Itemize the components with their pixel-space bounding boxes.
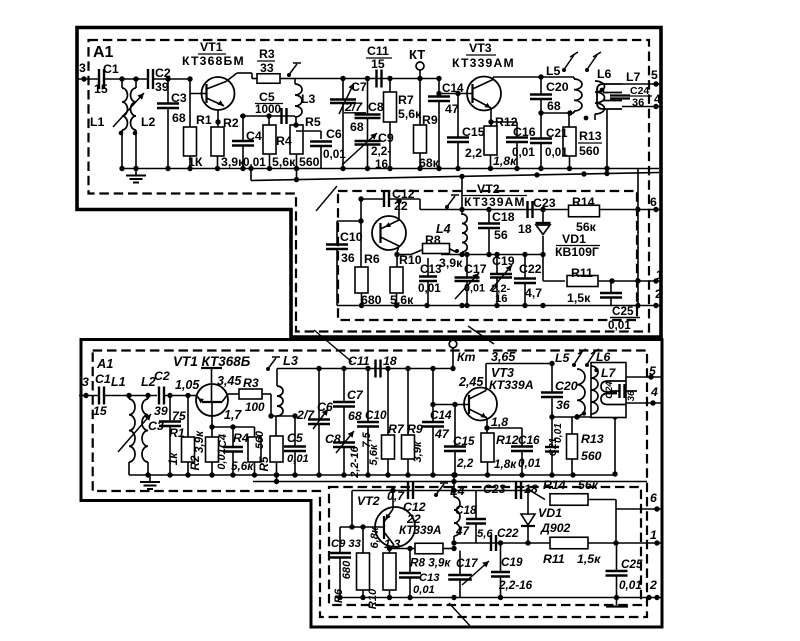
svg-text:3,65: 3,65 — [491, 350, 516, 364]
svg-text:1,5к: 1,5к — [567, 291, 591, 305]
svg-text:L7: L7 — [626, 70, 641, 84]
svg-text:L5: L5 — [555, 351, 570, 365]
svg-text:L6: L6 — [597, 67, 612, 81]
svg-text:1,05: 1,05 — [175, 378, 200, 392]
svg-text:5,6к: 5,6к — [390, 293, 414, 307]
svg-text:C6: C6 — [326, 127, 342, 141]
svg-text:68: 68 — [172, 111, 186, 125]
svg-text:R8: R8 — [425, 233, 441, 247]
svg-text:VT1: VT1 — [200, 40, 223, 54]
svg-text:C16: C16 — [513, 125, 536, 139]
svg-text:R11: R11 — [571, 266, 593, 280]
svg-text:0,01: 0,01 — [216, 448, 228, 470]
svg-text:Д902: Д902 — [540, 521, 571, 535]
svg-text:С8: С8 — [325, 432, 341, 446]
svg-text:6,8к: 6,8к — [369, 526, 381, 548]
svg-text:18: 18 — [383, 354, 397, 368]
svg-text:1000: 1000 — [255, 103, 282, 116]
svg-text:С15: С15 — [453, 435, 475, 448]
svg-text:КТ368БМ: КТ368БМ — [182, 54, 245, 68]
svg-text:560: 560 — [581, 449, 602, 463]
svg-text:КТ339А: КТ339А — [489, 378, 534, 392]
svg-text:75: 75 — [172, 409, 186, 423]
svg-text:С24: С24 — [630, 85, 649, 97]
svg-text:47: 47 — [434, 427, 450, 441]
svg-text:5: 5 — [651, 68, 658, 82]
svg-text:C17: C17 — [456, 557, 478, 570]
svg-text:C22: C22 — [519, 262, 542, 276]
svg-text:А1: А1 — [96, 356, 113, 371]
svg-text:680: 680 — [341, 560, 353, 579]
svg-text:1: 1 — [650, 528, 657, 542]
svg-text:VT2: VT2 — [357, 494, 380, 508]
svg-text:0,7: 0,7 — [387, 489, 405, 503]
svg-text:C7: C7 — [351, 80, 367, 94]
svg-text:C25: C25 — [621, 558, 643, 571]
svg-text:1,5к: 1,5к — [577, 552, 601, 566]
svg-text:3,9к: 3,9к — [193, 430, 206, 453]
svg-text:R14: R14 — [543, 478, 566, 492]
svg-text:C5: C5 — [259, 90, 275, 104]
svg-text:2,2: 2,2 — [456, 457, 474, 470]
svg-text:R2: R2 — [189, 455, 202, 470]
svg-text:2: 2 — [655, 287, 662, 301]
svg-text:C19: C19 — [501, 556, 523, 569]
svg-text:22: 22 — [394, 199, 408, 213]
svg-text:С21: С21 — [548, 437, 559, 456]
svg-text:1: 1 — [656, 268, 663, 282]
svg-text:С24: С24 — [604, 381, 615, 399]
svg-text:0,01: 0,01 — [243, 156, 266, 169]
svg-text:36: 36 — [632, 97, 644, 109]
svg-text:С5: С5 — [287, 431, 303, 445]
svg-text:L7: L7 — [601, 366, 617, 380]
svg-text:С4: С4 — [217, 434, 229, 448]
svg-text:18: 18 — [518, 222, 532, 236]
svg-text:R12: R12 — [496, 433, 519, 447]
svg-text:C3: C3 — [148, 419, 164, 433]
svg-text:68: 68 — [547, 99, 561, 113]
svg-text:0,01: 0,01 — [545, 146, 568, 159]
svg-text:0,01: 0,01 — [512, 146, 535, 159]
svg-text:15: 15 — [94, 82, 108, 96]
svg-text:L5: L5 — [546, 64, 561, 78]
svg-text:R1: R1 — [196, 113, 212, 127]
svg-text:100: 100 — [245, 401, 265, 414]
svg-text:4: 4 — [654, 92, 661, 106]
svg-text:С20: С20 — [555, 379, 578, 393]
svg-text:0,01: 0,01 — [518, 457, 541, 470]
svg-text:R3: R3 — [243, 376, 259, 390]
svg-text:3,9к: 3,9к — [412, 440, 424, 462]
svg-text:C18: C18 — [455, 504, 477, 517]
svg-text:C15: C15 — [462, 125, 485, 139]
svg-text:3,9к: 3,9к — [439, 256, 463, 270]
svg-text:16: 16 — [375, 158, 389, 171]
svg-text:С7: С7 — [347, 388, 364, 402]
svg-text:C22: C22 — [497, 527, 519, 540]
svg-text:C2: C2 — [155, 66, 171, 80]
svg-text:2: 2 — [649, 578, 657, 592]
svg-text:R6: R6 — [364, 252, 380, 266]
svg-text:68к: 68к — [419, 156, 440, 170]
svg-text:R6: R6 — [333, 588, 345, 603]
svg-text:КТ: КТ — [409, 47, 425, 62]
svg-text:L1: L1 — [90, 115, 105, 129]
svg-text:КТ339АМ: КТ339АМ — [452, 56, 515, 70]
svg-text:680: 680 — [361, 293, 382, 307]
svg-text:L3: L3 — [301, 92, 316, 106]
svg-text:А1: А1 — [93, 44, 114, 61]
svg-text:VD1: VD1 — [562, 232, 586, 246]
svg-text:C1: C1 — [95, 372, 111, 386]
svg-text:R11: R11 — [543, 552, 565, 566]
svg-text:2,2: 2,2 — [465, 146, 482, 160]
svg-text:1к: 1к — [167, 452, 180, 466]
svg-text:VT2: VT2 — [477, 182, 500, 196]
svg-text:0,01: 0,01 — [608, 319, 631, 332]
svg-text:C4: C4 — [246, 129, 262, 143]
svg-text:C20: C20 — [546, 80, 569, 94]
svg-text:C10: C10 — [340, 230, 363, 244]
svg-text:2/7: 2/7 — [344, 100, 363, 114]
svg-text:C21: C21 — [546, 127, 568, 140]
svg-text:0,01: 0,01 — [323, 148, 346, 161]
svg-text:3,45: 3,45 — [217, 374, 242, 388]
svg-text:3,9к: 3,9к — [221, 155, 245, 169]
svg-text:R5: R5 — [258, 456, 271, 471]
svg-text:4,7: 4,7 — [525, 286, 542, 300]
svg-text:L4: L4 — [450, 484, 465, 498]
svg-text:36: 36 — [556, 398, 570, 412]
svg-text:КВ109Г: КВ109Г — [555, 245, 599, 259]
svg-text:2/7: 2/7 — [296, 408, 315, 422]
svg-text:L2: L2 — [141, 375, 156, 389]
svg-text:16: 16 — [495, 293, 507, 305]
svg-text:56к: 56к — [576, 220, 597, 234]
svg-text:C14: C14 — [442, 82, 464, 95]
svg-text:L2: L2 — [141, 115, 156, 129]
svg-text:39: 39 — [155, 80, 169, 94]
svg-text:5: 5 — [649, 364, 656, 378]
svg-text:5,6к: 5,6к — [398, 107, 422, 121]
svg-text:15: 15 — [93, 404, 107, 418]
svg-text:R14: R14 — [572, 195, 595, 209]
svg-text:VT1 КТ368Б: VT1 КТ368Б — [173, 354, 251, 369]
svg-text:36: 36 — [626, 390, 637, 401]
svg-text:56к: 56к — [578, 478, 599, 492]
svg-text:3: 3 — [79, 61, 86, 75]
svg-text:1,3: 1,3 — [384, 538, 401, 551]
svg-text:C23: C23 — [533, 196, 556, 210]
svg-text:С10: С10 — [365, 409, 387, 422]
svg-text:4: 4 — [650, 385, 658, 399]
svg-text:36: 36 — [341, 251, 355, 265]
svg-text:560: 560 — [579, 144, 600, 158]
svg-text:C23: C23 — [483, 482, 506, 496]
svg-text:C2: C2 — [154, 369, 170, 383]
svg-text:C13: C13 — [419, 572, 440, 584]
svg-text:R13: R13 — [581, 432, 604, 446]
svg-text:39: 39 — [154, 404, 168, 418]
svg-text:1,7: 1,7 — [224, 408, 242, 422]
svg-text:R5: R5 — [305, 115, 321, 129]
svg-text:5,6к: 5,6к — [368, 443, 380, 465]
svg-text:2,2-16: 2,2-16 — [498, 579, 533, 592]
svg-text:С6: С6 — [317, 400, 333, 414]
svg-text:R7: R7 — [388, 422, 405, 436]
svg-text:R8 3,9к: R8 3,9к — [410, 557, 451, 570]
svg-text:56: 56 — [494, 228, 508, 242]
svg-text:1,8: 1,8 — [491, 415, 508, 429]
svg-text:0,01: 0,01 — [418, 282, 441, 295]
svg-text:R4: R4 — [233, 431, 249, 445]
svg-text:68: 68 — [348, 409, 362, 423]
svg-text:0,01: 0,01 — [413, 584, 435, 596]
svg-text:Кт: Кт — [457, 350, 476, 364]
svg-text:2,45: 2,45 — [458, 375, 484, 389]
svg-text:5,6к: 5,6к — [231, 460, 254, 473]
svg-text:C19: C19 — [492, 254, 515, 268]
svg-text:R13: R13 — [579, 129, 602, 143]
svg-text:VT3: VT3 — [469, 41, 492, 55]
svg-text:R10: R10 — [399, 253, 422, 267]
svg-text:47: 47 — [445, 102, 459, 116]
svg-text:C18: C18 — [492, 210, 515, 224]
svg-text:15: 15 — [371, 57, 385, 71]
svg-text:68: 68 — [350, 120, 364, 134]
svg-text:C9: C9 — [378, 131, 394, 145]
svg-text:L6: L6 — [596, 350, 611, 364]
svg-text:С9 33: С9 33 — [331, 538, 362, 550]
svg-text:L3: L3 — [283, 353, 298, 368]
svg-text:КТ339А: КТ339А — [399, 524, 441, 537]
svg-text:C3: C3 — [171, 91, 187, 105]
svg-text:R9: R9 — [422, 113, 438, 127]
svg-text:0,01: 0,01 — [287, 453, 309, 465]
svg-text:VD1: VD1 — [538, 506, 562, 520]
svg-text:47: 47 — [455, 525, 470, 538]
svg-text:18: 18 — [524, 482, 538, 496]
svg-text:R4: R4 — [276, 134, 292, 148]
svg-text:R1: R1 — [169, 426, 185, 440]
svg-text:C8: C8 — [368, 100, 384, 114]
svg-text:3: 3 — [82, 375, 89, 389]
svg-text:5,6к: 5,6к — [272, 155, 296, 169]
svg-text:2,2-16: 2,2-16 — [349, 445, 361, 478]
svg-text:C13: C13 — [420, 263, 442, 276]
svg-text:1К: 1К — [188, 155, 203, 169]
svg-text:C17: C17 — [464, 262, 487, 276]
svg-text:R3: R3 — [259, 47, 275, 61]
svg-text:C1: C1 — [103, 62, 119, 76]
svg-text:С16: С16 — [518, 434, 540, 447]
svg-text:КТ339АМ: КТ339АМ — [464, 195, 525, 209]
svg-text:0,01: 0,01 — [619, 579, 642, 592]
svg-text:С25: С25 — [612, 305, 634, 318]
svg-text:R9: R9 — [407, 422, 423, 436]
svg-text:C11: C11 — [367, 44, 389, 58]
svg-text:560: 560 — [299, 155, 320, 169]
svg-text:R10: R10 — [367, 588, 379, 609]
svg-text:0,01: 0,01 — [464, 283, 485, 295]
svg-text:С11: С11 — [348, 354, 370, 368]
svg-text:L1: L1 — [111, 375, 126, 389]
svg-text:6: 6 — [650, 195, 657, 209]
svg-text:2,2-: 2,2- — [371, 145, 391, 158]
svg-text:5,6: 5,6 — [477, 528, 493, 540]
svg-text:6: 6 — [650, 491, 657, 505]
svg-text:R2: R2 — [223, 116, 239, 130]
svg-text:560: 560 — [254, 431, 266, 449]
svg-text:R7: R7 — [398, 93, 414, 107]
svg-text:33: 33 — [260, 61, 274, 75]
svg-text:1,8к: 1,8к — [494, 458, 517, 471]
svg-text:С14: С14 — [430, 409, 452, 422]
